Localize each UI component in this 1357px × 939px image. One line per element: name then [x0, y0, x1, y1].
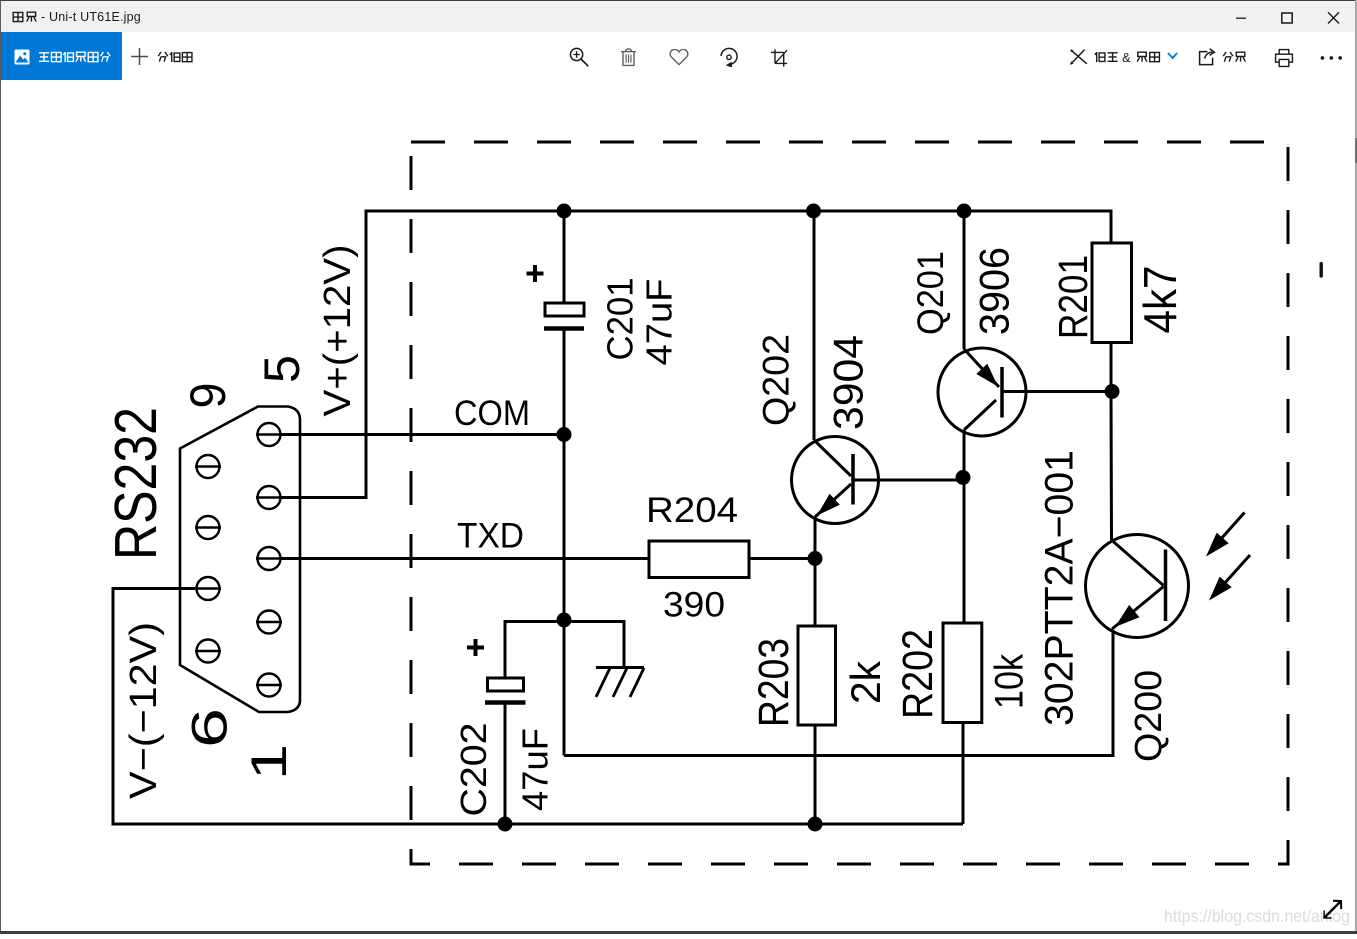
label R204: [646, 490, 738, 530]
value 3904: [825, 335, 872, 430]
minimize button: [1231, 8, 1251, 28]
add-to + icon: [130, 47, 149, 66]
svg-text:V−(−12V): V−(−12V): [123, 622, 165, 799]
wire C201 top lead: [563, 211, 566, 303]
svg-text:3906: 3906: [971, 247, 1018, 335]
svg-text:Q200: Q200: [1128, 670, 1170, 762]
value 3906: [971, 247, 1018, 335]
label pin 5: [254, 355, 310, 383]
edit&create label 编辑 & 创建: [1094, 51, 1119, 64]
svg-text:Q202: Q202: [756, 334, 797, 426]
button label 查看所有照片: [38, 51, 112, 64]
resistor R204 390: [649, 541, 749, 578]
ground: [596, 668, 644, 698]
label R201: [1050, 255, 1096, 339]
blue chevron: [1166, 51, 1179, 61]
dashed interface-adapter box border: [411, 142, 1288, 864]
node COM: [557, 427, 572, 442]
label C201: [600, 278, 641, 361]
expand arrow icon: [1324, 901, 1341, 918]
label Q202: [756, 334, 797, 426]
share icon: [1197, 48, 1217, 66]
trash icon: [619, 46, 638, 67]
wire C201 bottom lead: [563, 330, 566, 435]
wire C202 bottom lead: [504, 704, 507, 824]
net TXD: [457, 516, 524, 556]
node top rail / Q202 collector: [806, 204, 821, 219]
svg-text:10k: 10k: [988, 654, 1032, 709]
wire COM vertical bus: [563, 435, 566, 756]
label RS232: [103, 407, 169, 560]
add-to label 添加到: [157, 51, 194, 64]
net V+(+12V): [317, 245, 359, 417]
node Q201 base / R201 / Q200 collector: [1105, 384, 1120, 399]
svg-text:C201: C201: [600, 278, 641, 361]
wire Q201 base to node: [1002, 390, 1112, 393]
svg-text:Q201: Q201: [910, 251, 951, 335]
label R203: [750, 638, 798, 727]
svg-text:1: 1: [241, 744, 297, 780]
wire COM: DB9 pin to node: [281, 433, 564, 436]
edit&create icon: [1069, 48, 1089, 66]
svg-text:R202: R202: [895, 629, 942, 719]
ellipsis: [1318, 54, 1346, 62]
net V-(-12V): [123, 622, 165, 799]
svg-text:3904: 3904: [825, 335, 872, 430]
value 47uF C202: [514, 728, 555, 811]
wire R204 to Q202 emitter node: [749, 557, 815, 560]
svg-text:R203: R203: [750, 638, 798, 727]
svg-text:V+(+12V): V+(+12V): [317, 245, 359, 417]
svg-text:2k: 2k: [842, 660, 889, 704]
wire Q202 collector to top rail: [813, 211, 816, 440]
node top rail / Q201 emitter: [957, 204, 972, 219]
svg-text:47uF: 47uF: [514, 728, 555, 811]
value 2k: [842, 660, 889, 704]
svg-text:9: 9: [180, 383, 236, 409]
svg-text:TXD: TXD: [457, 516, 524, 556]
wire R202 bottom lead: [962, 723, 965, 825]
resistor R202 10k: [943, 623, 982, 723]
transistor Q202 2N3904: [792, 437, 879, 524]
node Q202 emitter / R204 / R203: [808, 551, 823, 566]
phototransistor Q200 302PTT2A-001: [1086, 513, 1251, 638]
svg-text:4k7: 4k7: [1134, 266, 1186, 334]
svg-text:6: 6: [182, 708, 238, 748]
svg-text:302PTT2A−001: 302PTT2A−001: [1037, 450, 1081, 726]
svg-text:https://blog.csdn.net/anlog: https://blog.csdn.net/anlog: [1164, 906, 1350, 926]
connector RS232 DB9: [180, 407, 300, 713]
value 390: [663, 585, 725, 625]
wire emitter return: COM bus to Q200 emitter: [564, 630, 1113, 756]
crop icon: [769, 49, 788, 67]
label pin 9: [180, 383, 236, 409]
right edge tick mark: [1320, 262, 1323, 278]
svg-text:R204: R204: [646, 490, 738, 530]
node top rail / C201: [557, 204, 572, 219]
watermark: [1164, 906, 1350, 926]
svg-text:COM: COM: [454, 393, 530, 433]
transistor Q201 2N3906: [938, 348, 1026, 436]
capacitor C202 47uF: [467, 639, 526, 703]
net COM: [454, 393, 530, 433]
print icon: [1274, 48, 1294, 68]
svg-text:390: 390: [663, 585, 725, 625]
heart icon: [669, 49, 689, 66]
wire V-: DB9 pin to bottom rail: [113, 589, 963, 825]
value 47uF C201: [639, 279, 680, 366]
label R202: [895, 629, 942, 719]
wire R201 to Q200 collector: [1110, 343, 1114, 541]
label C202: [453, 723, 494, 817]
rotate icon: [719, 47, 739, 67]
svg-text:RS232: RS232: [103, 407, 169, 560]
wire V+ rail: DB9 pin to top rail to R201: [281, 211, 1111, 498]
value 302PTT2A-001: [1037, 450, 1081, 726]
svg-text:C202: C202: [453, 723, 494, 817]
wire C202 branch from COM bus: [505, 622, 624, 679]
wire Q202 emitter to R203: [814, 517, 817, 626]
svg-text:47uF: 47uF: [639, 279, 680, 366]
node Q202 base / Q201 collector: [956, 470, 971, 485]
title text 照片 - Uni-t UT61E.jpg: [12, 11, 38, 24]
wire TXD: DB9 pin to R204: [281, 557, 649, 560]
value 4k7: [1134, 266, 1186, 334]
value 10k: [988, 654, 1032, 709]
photos app icon: [14, 49, 30, 65]
capacitor C201 47uF: [527, 265, 585, 329]
label Q201: [910, 251, 951, 335]
wire Q201 emitter to top rail: [963, 211, 966, 349]
resistor R201 4k7: [1092, 243, 1132, 343]
label pin 6: [182, 708, 238, 748]
svg-text:5: 5: [254, 355, 310, 383]
node C202 / bottom rail: [498, 817, 513, 832]
zoom icon: [566, 43, 592, 69]
node C202 / ground branch: [557, 613, 572, 628]
wire Q202 base to node: [853, 479, 963, 482]
label Q200: [1128, 670, 1170, 762]
node R203 / bottom rail: [808, 817, 823, 832]
resistor R203 2k: [798, 626, 836, 725]
wire R203 bottom lead: [814, 725, 817, 824]
close button: [1323, 7, 1345, 29]
share label 分享: [1222, 51, 1247, 64]
svg-text:R201: R201: [1050, 255, 1096, 339]
maximize button: [1277, 8, 1297, 28]
wire Q201 collector to R202: [963, 430, 966, 623]
label pin 1: [241, 744, 297, 780]
